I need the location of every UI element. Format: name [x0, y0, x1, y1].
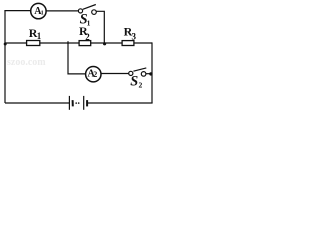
ammeter A1	[31, 3, 46, 18]
svg-text:1: 1	[41, 10, 44, 17]
wire bottom row left (to battery)	[5, 102, 69, 104]
wire middle row to R1	[5, 42, 27, 44]
label R1	[29, 26, 42, 41]
node junction under S1	[103, 42, 106, 45]
switch S2	[129, 68, 147, 76]
node junction left-middle	[4, 43, 7, 46]
label S1	[80, 11, 91, 27]
wire branch down from middle row to third row	[68, 43, 86, 74]
svg-text:2: 2	[139, 80, 143, 89]
wire S1 to corner, down to middle row	[96, 11, 104, 43]
svg-text:2: 2	[93, 70, 97, 79]
label R3	[124, 25, 137, 42]
wire R2 to R3	[91, 42, 123, 44]
svg-text:2: 2	[85, 32, 90, 42]
wire R3 to right corner	[134, 42, 152, 44]
wire A1 to switch S1	[46, 10, 78, 12]
resistor R3	[122, 41, 134, 46]
wire R1 to R2	[40, 42, 80, 44]
wire right vertical	[151, 42, 153, 103]
wire battery to bottom right	[88, 102, 153, 104]
wire A2 to switch S2	[101, 73, 129, 75]
svg-text:S: S	[130, 74, 138, 90]
battery	[69, 96, 87, 110]
svg-text:3: 3	[132, 32, 137, 42]
svg-text:1: 1	[37, 31, 42, 41]
wire top row left (to ammeter A1)	[4, 10, 30, 12]
resistor R2	[79, 41, 91, 46]
wire S2 to right vertical	[146, 73, 152, 75]
node T-junction branch to A2	[67, 41, 69, 44]
switch S1	[78, 5, 96, 15]
label R2	[79, 24, 90, 42]
wire left vertical	[4, 11, 6, 103]
svg-text:szoo.com: szoo.com	[7, 57, 46, 68]
resistor R1	[27, 41, 40, 46]
node junction S2/right vertical	[149, 72, 152, 75]
ammeter A2	[86, 67, 101, 82]
label S2	[130, 74, 142, 90]
